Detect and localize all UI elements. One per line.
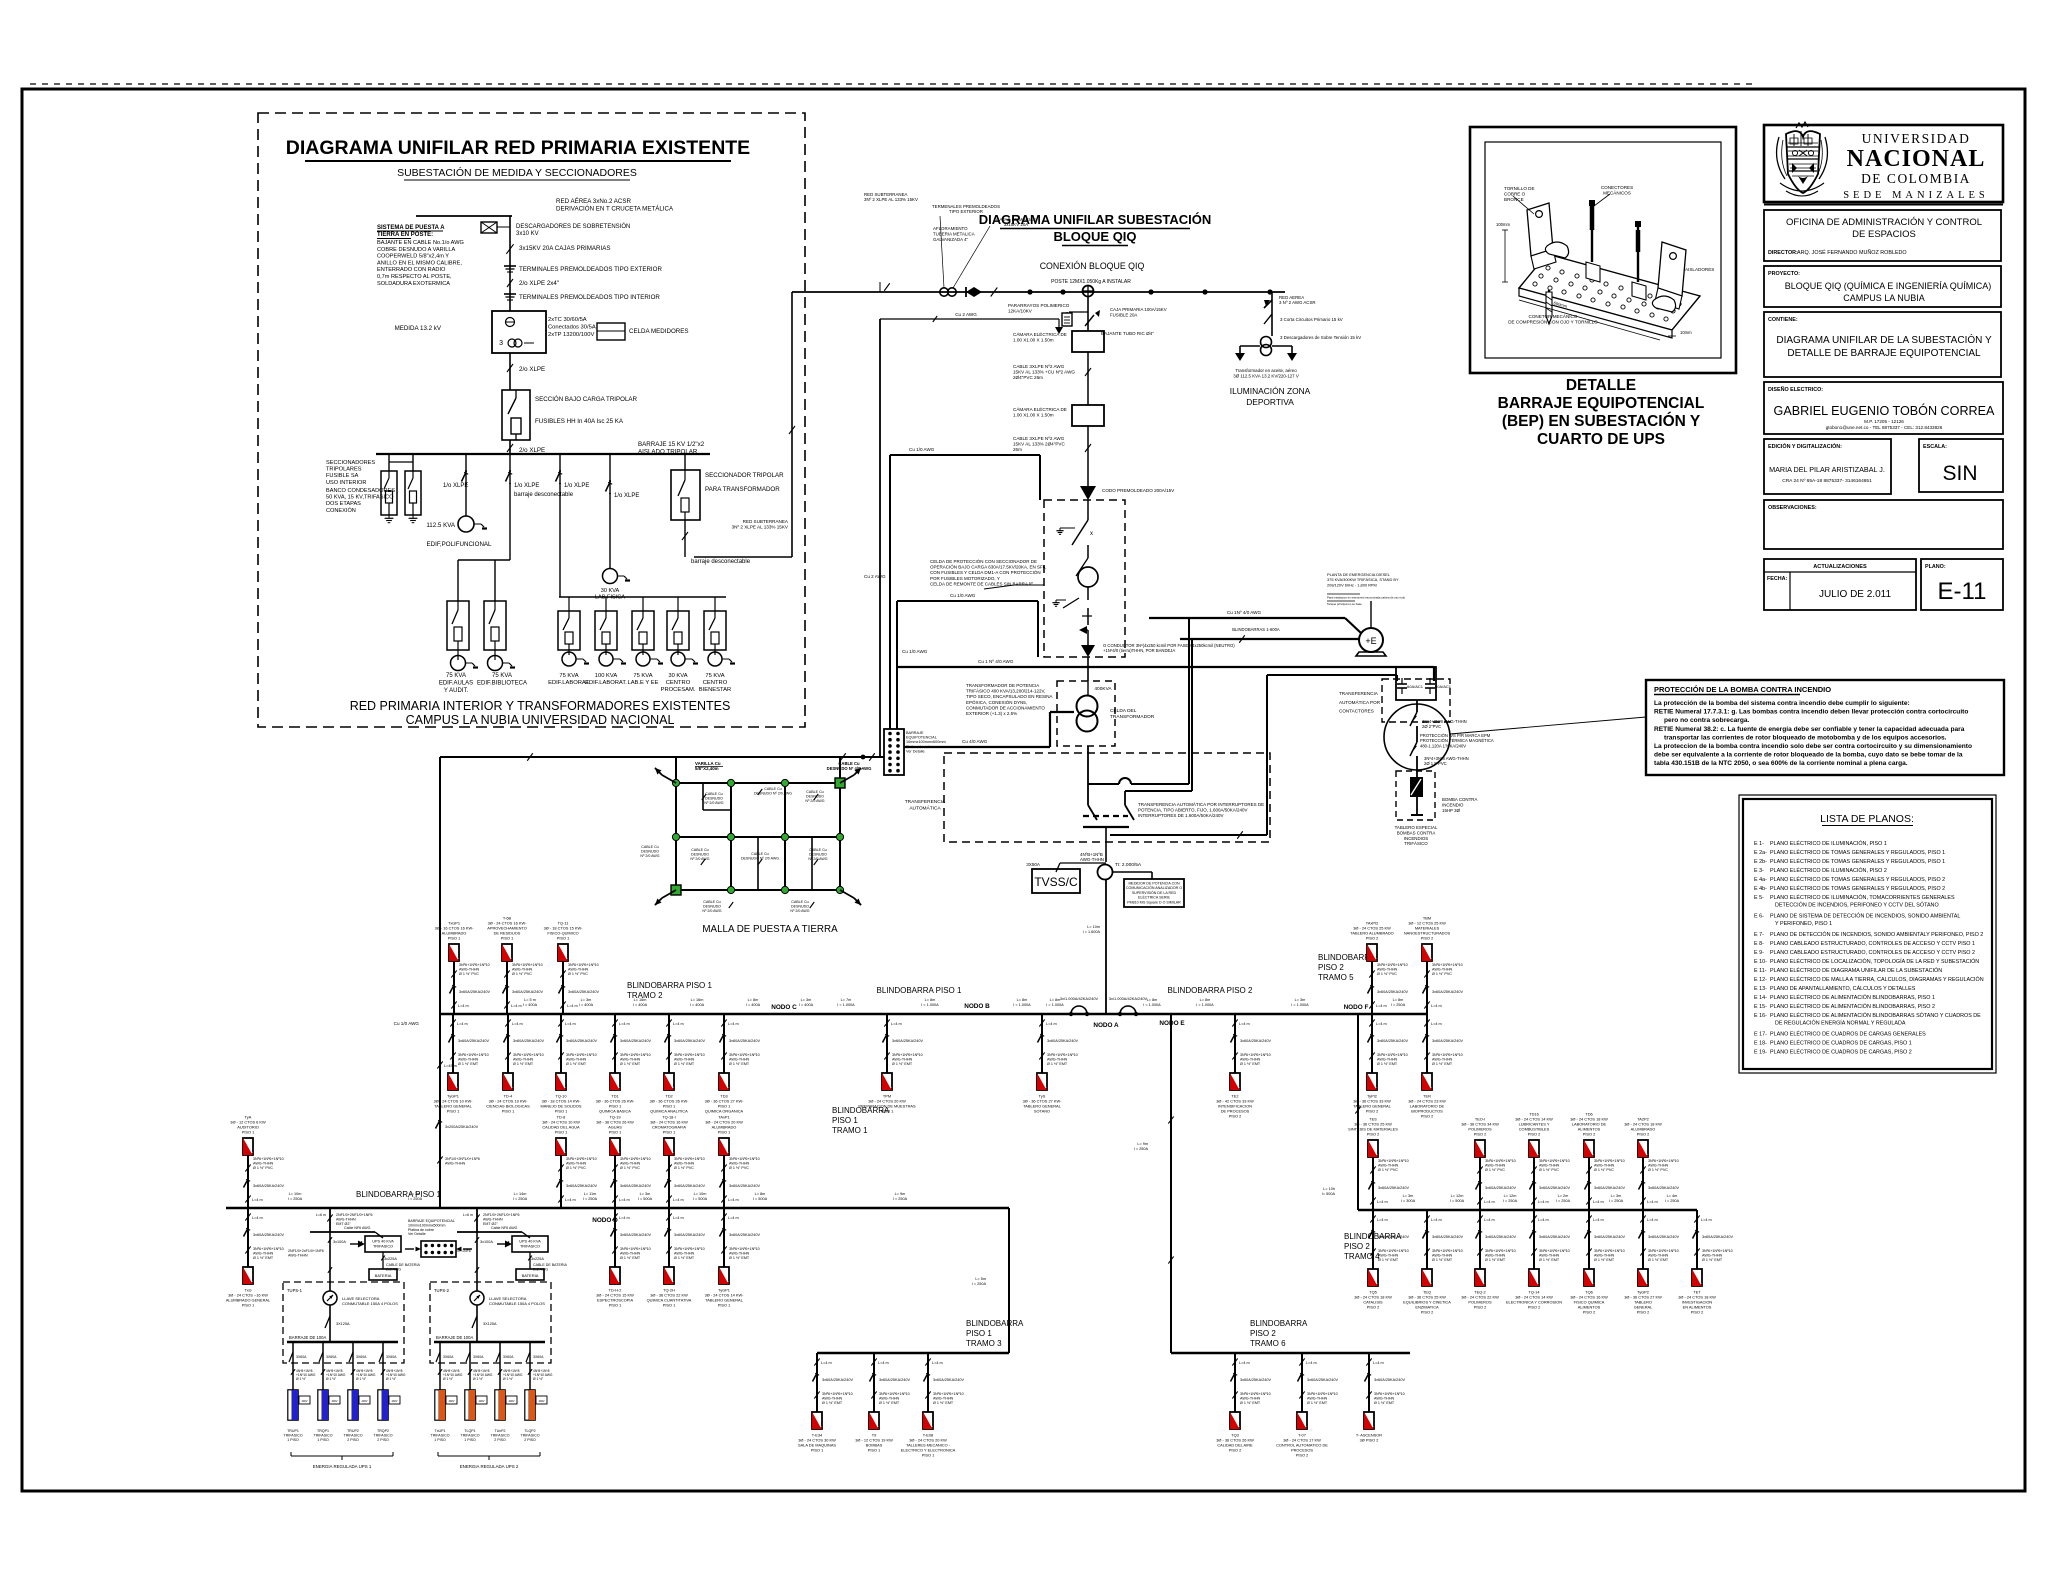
svg-text:JULIO DE 2.011: JULIO DE 2.011	[1819, 589, 1892, 600]
svg-text:RED AÉREA 3xNo.2 ACSR: RED AÉREA 3xNo.2 ACSR	[556, 198, 631, 205]
svg-text:BARRAJE EQUIPOTENCIAL: BARRAJE EQUIPOTENCIAL	[1498, 395, 1705, 412]
feeder TQ-18-I	[650, 1115, 705, 1209]
svg-text:BARRAJE 15 KV 1/2"x2: BARRAJE 15 KV 1/2"x2	[638, 441, 705, 448]
svg-text:transportar las corrientes: transportar las corrientes de rotor bloq…	[1664, 734, 1947, 741]
svg-text:L=4 m: L=4 m	[1239, 1022, 1250, 1026]
svg-text:Cu 1 Nº 4/0 AWG: Cu 1 Nº 4/0 AWG	[978, 659, 1014, 664]
svg-text:3X60A: 3X60A	[533, 1355, 544, 1359]
svg-text:3Nº6+1Nº6+1Nº10: 3Nº6+1Nº6+1Nº10	[620, 1053, 651, 1057]
svg-text:L=4 m: L=4 m	[1046, 1022, 1057, 1026]
svg-text:3x60A/25KA/240V: 3x60A/25KA/240V	[566, 1039, 597, 1043]
svg-text:SIN: SIN	[1942, 462, 1977, 485]
svg-text:CABLE Cu: CABLE Cu	[806, 790, 823, 794]
svg-text:2NF1/0+2NF1/0+1NF6: 2NF1/0+2NF1/0+1NF6	[336, 1213, 373, 1217]
svg-text:3Nº6+1Nº6+1Nº10: 3Nº6+1Nº6+1Nº10	[620, 1247, 651, 1251]
svg-text:CABLE 3XLPE Nº2 AWG: CABLE 3XLPE Nº2 AWG	[1013, 364, 1065, 369]
svg-text:L=6 m: L=6 m	[463, 1213, 473, 1217]
svg-text:AWG-THHN: AWG-THHN	[892, 1058, 912, 1062]
svg-text:L= 3m: L= 3m	[1403, 1194, 1414, 1198]
svg-text:SISTEMA DE PUESTA A: SISTEMA DE PUESTA A	[377, 225, 445, 231]
svg-text:Y AUDIT.: Y AUDIT.	[444, 688, 469, 694]
svg-text:PISO 1: PISO 1	[663, 1303, 676, 1308]
svg-text:TRAMO 1: TRAMO 1	[832, 1126, 868, 1135]
svg-text:PISO 1: PISO 1	[922, 1453, 935, 1458]
svg-text:TRAMO 3: TRAMO 3	[966, 1339, 1002, 1348]
svg-text:CABLE Cu: CABLE Cu	[703, 900, 720, 904]
svg-text:Ø 1 ½" PVC: Ø 1 ½" PVC	[566, 1166, 586, 1170]
proyecto box	[1764, 266, 2001, 307]
svg-text:DIRECTOR:: DIRECTOR:	[1768, 250, 1798, 256]
svg-text:Ø 1 ½" EMT: Ø 1 ½" EMT	[729, 1062, 750, 1066]
caption detalle BEP	[1498, 377, 1705, 448]
svg-text:ESCALA:: ESCALA:	[1923, 444, 1947, 450]
svg-text:3 Corta Circuitos Primario 15: 3 Corta Circuitos Primario 15 kV	[1280, 317, 1343, 322]
bus tie arcs at nodo A	[1060, 996, 1148, 1016]
svg-text:TRIFASICO: TRIFASICO	[521, 1434, 540, 1438]
svg-text:TRUP2: TRUP2	[347, 1429, 359, 1433]
svg-text:Ø 1 ½" PVC: Ø 1 ½" PVC	[1485, 1168, 1505, 1172]
svg-text:CONEXIÓN: CONEXIÓN	[326, 507, 356, 514]
svg-text:3Nº6+1Nº6+1Nº10: 3Nº6+1Nº6+1Nº10	[674, 1157, 705, 1161]
svg-text:INCENDIOS: INCENDIOS	[1404, 836, 1428, 841]
svg-text:COOPERWELD 5/8"x2,4m Y: COOPERWELD 5/8"x2,4m Y	[377, 254, 449, 260]
svg-text:3Nº6+1Nº6+1Nº10: 3Nº6+1Nº6+1Nº10	[513, 1053, 544, 1057]
wire gen output	[1180, 627, 1359, 643]
feeder TyS	[1023, 1014, 1079, 1114]
UPS dashed enclosure TUPS-1	[283, 1282, 404, 1363]
svg-text:Ø 1 ½" EMT: Ø 1 ½" EMT	[1594, 1258, 1615, 1262]
svg-text:EPÓXICA, CONEXIÓN DYN5,: EPÓXICA, CONEXIÓN DYN5,	[966, 699, 1027, 705]
svg-text:RED PRIMARIA INTERIOR Y TRANSF: RED PRIMARIA INTERIOR Y TRANSFORMADORES …	[350, 699, 731, 713]
svg-text:3 Nº 2 AWG ACSR: 3 Nº 2 AWG ACSR	[1279, 300, 1316, 305]
node labels	[592, 1003, 1368, 1224]
escala box	[1919, 439, 2003, 492]
svg-text:3x60A/25KA/240V: 3x60A/25KA/240V	[1378, 1235, 1409, 1239]
svg-text:barraje desconectable: barraje desconectable	[514, 492, 574, 498]
power meter box	[1124, 879, 1184, 907]
svg-text:3X60A: 3X60A	[326, 1355, 337, 1359]
transfer breakers	[1083, 746, 1134, 862]
note planta de emergencia diesel	[1327, 572, 1405, 606]
svg-text:SECCIÓN BAJO CARGA TRIPOLAR: SECCIÓN BAJO CARGA TRIPOLAR	[535, 396, 638, 403]
svg-text:DERIVACIÓN EN T CRUCETA METÁ: DERIVACIÓN EN T CRUCETA METÁLICA	[556, 206, 674, 213]
svg-text:Ø 1 ½": Ø 1 ½"	[443, 1377, 454, 1381]
svg-text:FECHA:: FECHA:	[1767, 576, 1788, 582]
svg-text:I = 400A: I = 400A	[579, 1003, 594, 1007]
svg-text:I = 1.000A: I = 1.000A	[1013, 1003, 1031, 1007]
svg-text:CONETOR MECÁNICO: CONETOR MECÁNICO	[1529, 313, 1578, 319]
svg-text:Nº 2/0 AWG: Nº 2/0 AWG	[808, 857, 827, 861]
svg-text:ENERGIA REGULADA UPS 1: ENERGIA REGULADA UPS 1	[313, 1464, 372, 1469]
svg-text:I = 250A: I = 250A	[1665, 1199, 1680, 1203]
svg-text:L=4 m: L=4 m	[1647, 1200, 1658, 1204]
svg-text:Nº 2/0 AWG: Nº 2/0 AWG	[702, 909, 721, 913]
svg-text:UPS 40 KVA: UPS 40 KVA	[519, 1240, 541, 1244]
svg-text:L= 2m: L= 2m	[1558, 1194, 1569, 1198]
transformer cell dashed	[1057, 681, 1115, 746]
svg-text:Nº 2/0 AWG: Nº 2/0 AWG	[790, 909, 809, 913]
blindobarra piso 2 tramo 4 bus	[1358, 1209, 1697, 1211]
svg-text:3Nº6+1Nº6+1Nº10: 3Nº6+1Nº6+1Nº10	[822, 1392, 853, 1396]
svg-text:L= 8m: L= 8m	[1050, 998, 1061, 1002]
svg-text:PISO 2: PISO 2	[1421, 1114, 1434, 1119]
current transformer TI 2000/5A	[1098, 862, 1153, 880]
svg-text:1/o XLPE: 1/o XLPE	[614, 493, 639, 499]
isometric copper bar	[1519, 200, 1700, 338]
svg-text:3Nº6+1Nº6+1Nº10: 3Nº6+1Nº6+1Nº10	[879, 1392, 910, 1396]
svg-text:I = 1.000A: I = 1.000A	[1143, 1003, 1161, 1007]
UPS subsystem TUPS-1	[288, 1208, 420, 1342]
feeder TD-8	[542, 1115, 597, 1209]
svg-text:BATERIA: BATERIA	[375, 1273, 392, 1278]
svg-text:12KA/10KV: 12KA/10KV	[1008, 309, 1033, 314]
svg-text:3x10 KV: 3x10 KV	[516, 231, 539, 237]
svg-text:PISO 1: PISO 1	[718, 1303, 731, 1308]
svg-text:3Ø 112.5 KVA 13.2 KV/220-127 V: 3Ø 112.5 KVA 13.2 KV/220-127 V	[1233, 374, 1299, 379]
svg-text:AWG-THHN: AWG-THHN	[729, 1058, 749, 1062]
svg-text:POR FUSIBLES MOTORIZADO, Y: POR FUSIBLES MOTORIZADO, Y	[930, 576, 1000, 581]
svg-text:75 KVA: 75 KVA	[633, 673, 652, 679]
svg-text:3Nº6+1Nº6+1Nº10: 3Nº6+1Nº6+1Nº10	[1378, 1159, 1409, 1163]
svg-text:CABLE DE BATERIA: CABLE DE BATERIA	[386, 1263, 420, 1267]
svg-text:PISO 2: PISO 2	[1344, 1242, 1370, 1251]
svg-text:3x225A: 3x225A	[384, 1257, 397, 1261]
fire pump protection circle	[1384, 700, 1450, 777]
svg-text:CABLE Cu: CABLE Cu	[764, 787, 781, 791]
svg-text:3x100A: 3x100A	[480, 1240, 493, 1244]
svg-text:3x60A/25KA/240V: 3x60A/25KA/240V	[1485, 1186, 1516, 1190]
svg-text:DETECCIÓN DE INCENDIOS, PERIFO: DETECCIÓN DE INCENDIOS, PERIFONEO Y CCTV…	[1775, 901, 1939, 908]
svg-text:100mm: 100mm	[1496, 222, 1510, 227]
svg-text:L= 3m: L= 3m	[1611, 1194, 1622, 1198]
svg-text:PLANO CABLEADO ESTRUCTURADO, C: PLANO CABLEADO ESTRUCTURADO, CONTROLES D…	[1770, 941, 1975, 947]
svg-text:400V: 400V	[301, 1399, 307, 1403]
svg-text:10mmx100mmx600mm: 10mmx100mmx600mm	[906, 740, 946, 744]
svg-text:I = 500A: I = 500A	[1450, 1199, 1465, 1203]
svg-text:L=4 m: L=4 m	[728, 1022, 739, 1026]
svg-text:CABLE Cu: CABLE Cu	[809, 848, 826, 852]
svg-text:3x225A: 3x225A	[531, 1257, 544, 1261]
feeder T-6B	[487, 916, 543, 1015]
svg-text:3Nº6+1Nº6+1Nº10: 3Nº6+1Nº6+1Nº10	[1485, 1249, 1516, 1253]
svg-text:3Nº6+1Nº6+1Nº10: 3Nº6+1Nº6+1Nº10	[1648, 1249, 1679, 1253]
svg-text:CABLE Cu: CABLE Cu	[691, 848, 708, 852]
svg-text:PISO 1: PISO 1	[663, 1130, 676, 1135]
svg-text:75 KVA: 75 KVA	[492, 673, 512, 679]
UPS dashed enclosure TUPS-2	[430, 1282, 551, 1363]
svg-text:L=4 m: L=4 m	[728, 1198, 739, 1202]
svg-text:L=4 m: L=4 m	[1376, 1004, 1387, 1008]
svg-text:UPS 40 KVA: UPS 40 KVA	[372, 1240, 394, 1244]
UPS feeder TUxP2	[491, 1342, 523, 1442]
svg-text:TLQP1: TLQP1	[464, 1429, 475, 1433]
svg-text:FUSIBLE 20A: FUSIBLE 20A	[1110, 312, 1137, 317]
svg-text:Ø 1 ½" PVC: Ø 1 ½" PVC	[1378, 1168, 1398, 1172]
svg-text:CENTRO: CENTRO	[666, 680, 691, 686]
svg-text:L= 8m: L= 8m	[755, 1192, 766, 1196]
svg-text:COBRE O: COBRE O	[1504, 192, 1526, 197]
svg-text:Ø 1 ½" PVC: Ø 1 ½" PVC	[674, 1166, 694, 1170]
svg-text:CABLE Cu: CABLE Cu	[641, 845, 658, 849]
svg-text:RED SUBTERRANEA: RED SUBTERRANEA	[743, 519, 789, 524]
svg-text:L=4 m: L=4 m	[1376, 1022, 1387, 1026]
svg-text:AWG-THHN: AWG-THHN	[1594, 1164, 1614, 1168]
svg-text:I = 250A: I = 250A	[408, 1197, 423, 1201]
svg-text:3Nº6+1Nº6+1Nº10: 3Nº6+1Nº6+1Nº10	[512, 963, 543, 967]
svg-text:3x60A/25KA/240V: 3x60A/25KA/240V	[253, 1233, 284, 1237]
svg-text:3x60A/25KA/240V: 3x60A/25KA/240V	[822, 1378, 853, 1382]
svg-text:AWG-THHN: AWG-THHN	[1432, 1058, 1452, 1062]
svg-text:3Nº6+1Nº6+1Nº10: 3Nº6+1Nº6+1Nº10	[1594, 1159, 1625, 1163]
svg-text:75 KVA: 75 KVA	[559, 673, 578, 679]
feeder TD-H-2	[596, 1208, 651, 1308]
svg-text:3x60A/25KA/240V: 3x60A/25KA/240V	[1594, 1235, 1625, 1239]
svg-text:Platina de cobre: Platina de cobre	[408, 1228, 434, 1232]
svg-text:PISO 1: PISO 1	[501, 936, 514, 941]
actualizaciones box	[1764, 559, 1916, 610]
svg-text:PISO 2: PISO 2	[1296, 1453, 1309, 1458]
feeder TxG	[226, 1208, 285, 1308]
svg-text:3x15KV 20A: 3x15KV 20A	[1004, 222, 1028, 227]
svg-text:L=4 m: L=4 m	[567, 1004, 578, 1008]
svg-text:OFICINA DE ADMINISTRACIÓN Y CO: OFICINA DE ADMINISTRACIÓN Y CONTROL	[1786, 217, 1982, 228]
svg-text:DESNUDO: DESNUDO	[691, 852, 709, 856]
svg-text:AWG-THHN: AWG-THHN	[1539, 1164, 1559, 1168]
svg-text:AWG-THHN: AWG-THHN	[674, 1252, 694, 1256]
svg-text:3Nº6+1Nº6+1Nº10: 3Nº6+1Nº6+1Nº10	[1240, 1053, 1271, 1057]
svg-text:Nº 2/0 AWG: Nº 2/0 AWG	[704, 801, 723, 805]
svg-text:Ø 1 ½" PVC: Ø 1 ½" PVC	[1539, 1168, 1559, 1172]
note celda proteccion	[930, 558, 1047, 589]
svg-text:PISO 1: PISO 1	[966, 1329, 992, 1338]
svg-text:Cu 2 AWG: Cu 2 AWG	[864, 574, 886, 579]
svg-text:L=4 m: L=4 m	[1431, 1022, 1442, 1026]
svg-text:I = 250A: I = 250A	[893, 1197, 908, 1201]
svg-text:AWG-THHN: AWG-THHN	[336, 1217, 356, 1221]
svg-text:DESNUDO: DESNUDO	[703, 904, 721, 908]
seccionador tripolar para transformador	[671, 454, 784, 565]
svg-text:AWG-THHN: AWG-THHN	[458, 1058, 478, 1062]
svg-text:LAB.E Y EE: LAB.E Y EE	[627, 680, 658, 686]
svg-text:3x60A/25KA/240V: 3x60A/25KA/240V	[1539, 1186, 1570, 1190]
svg-text:2NF1/0+2xF1/0+1NF6: 2NF1/0+2xF1/0+1NF6	[288, 1249, 324, 1253]
svg-text:400V: 400V	[361, 1399, 367, 1403]
svg-text:1 PISO: 1 PISO	[464, 1438, 476, 1442]
svg-text:L=4 m: L=4 m	[511, 1004, 522, 1008]
svg-text:AWG-THHN: AWG-THHN	[729, 1162, 749, 1166]
svg-text:I = 500A: I = 500A	[638, 1197, 653, 1201]
svg-text:Ver Detalle: Ver Detalle	[408, 1232, 426, 1236]
svg-text:L=4 m: L=4 m	[1701, 1218, 1712, 1222]
feeder T-07	[1276, 1353, 1338, 1458]
svg-text:L=4 m: L=4 m	[821, 1361, 832, 1365]
svg-text:E 6-: E 6-	[1754, 914, 1764, 920]
svg-text:3Nº6+1Nº6+1Nº10: 3Nº6+1Nº6+1Nº10	[892, 1053, 923, 1057]
UPS feeder TRQP1	[314, 1342, 346, 1442]
svg-text:L=4 m: L=4 m	[252, 1198, 263, 1202]
svg-text:TVSS/C: TVSS/C	[1034, 875, 1078, 889]
svg-text:3Nº6+1Nº6+1Nº10: 3Nº6+1Nº6+1Nº10	[566, 1157, 597, 1161]
wire: red aerea bus	[416, 215, 512, 217]
svg-text:Tanque principal en su base: Tanque principal en su base	[1327, 602, 1362, 606]
svg-text:3x60A/25KA/240V: 3x60A/25KA/240V	[253, 1184, 284, 1188]
svg-text:75 KVA: 75 KVA	[446, 673, 466, 679]
svg-text:DOS ETAPAS: DOS ETAPAS	[326, 501, 361, 507]
svg-text:Ø 1 ½" EMT: Ø 1 ½" EMT	[513, 1062, 534, 1066]
svg-text:3x60A/25KA/240V: 3x60A/25KA/240V	[1047, 1039, 1078, 1043]
svg-text:E 5-: E 5-	[1754, 895, 1764, 901]
svg-text:Ver Detalle: Ver Detalle	[906, 749, 925, 753]
svg-text:EXTERIOR (+1.3) x 2.5%: EXTERIOR (+1.3) x 2.5%	[966, 711, 1017, 716]
lista de planos items	[1754, 840, 1984, 1056]
svg-text:AWG-THHN: AWG-THHN	[483, 1217, 503, 1221]
svg-text:CABLE Cu: CABLE Cu	[791, 900, 808, 904]
svg-text:L=4 m: L=4 m	[457, 1022, 468, 1026]
svg-text:LISTA DE PLANOS:: LISTA DE PLANOS:	[1820, 813, 1914, 825]
svg-text:Ø 1 ½" PVC: Ø 1 ½" PVC	[729, 1166, 749, 1170]
svg-text:MALLA DE PUESTA A TIERRA: MALLA DE PUESTA A TIERRA	[702, 924, 838, 935]
main feeder to busbar	[1083, 879, 1106, 1014]
labels pump protection	[1420, 717, 1646, 766]
svg-text:pero no contra sobrecarga.: pero no contra sobrecarga.	[1664, 717, 1750, 724]
detail box barraje equipotencial	[1470, 127, 1736, 373]
svg-text:PISO 1: PISO 1	[832, 1116, 858, 1125]
svg-text:E 15-: E 15-	[1754, 1004, 1767, 1010]
svg-text:CONEXIÓN BLOQUE QIQ: CONEXIÓN BLOQUE QIQ	[1040, 261, 1145, 271]
svg-text:Para instalacion en exteriores: Para instalacion en exteriores insonoriz…	[1327, 596, 1405, 600]
caption red primaria interior	[350, 699, 731, 727]
svg-text:2/o XLPE 2x4": 2/o XLPE 2x4"	[519, 280, 559, 287]
svg-text:PISO 2: PISO 2	[1528, 1305, 1541, 1310]
pararrayos polimerico	[1008, 303, 1072, 334]
svg-text:I = 250A: I = 250A	[1134, 1147, 1149, 1151]
svg-text:Cu 1/0 AWG: Cu 1/0 AWG	[394, 1021, 420, 1026]
svg-text:Ø 1 ½" EMT: Ø 1 ½" EMT	[729, 1256, 750, 1260]
svg-text:SECCIONADOR TRIPOLAR: SECCIONADOR TRIPOLAR	[705, 472, 784, 479]
svg-text:PISO 2: PISO 2	[1637, 1310, 1650, 1315]
pole symbol conexion	[1082, 285, 1094, 297]
svg-text:TxUP1: TxUP1	[435, 1429, 446, 1433]
svg-text:GALVANIZADA 4": GALVANIZADA 4"	[933, 237, 969, 242]
svg-text:E 8-: E 8-	[1754, 941, 1764, 947]
svg-text:AWG-THHN: AWG-THHN	[933, 1397, 953, 1401]
svg-text:AWG-THHN: AWG-THHN	[253, 1162, 273, 1166]
tramo4 segment labels	[1401, 1194, 1680, 1203]
svg-text:MEDIDA 13.2 kV: MEDIDA 13.2 kV	[395, 325, 442, 332]
svg-text:L=4 m: L=4 m	[252, 1216, 263, 1220]
svg-text:3x60A/25KA/240V: 3x60A/25KA/240V	[892, 1039, 923, 1043]
svg-text:Ø 1 ½" EMT: Ø 1 ½" EMT	[892, 1062, 913, 1066]
svg-text:TORNILLO DE: TORNILLO DE	[1504, 186, 1535, 191]
wire Cu 4/0 AWG to transformer	[904, 712, 1074, 747]
svg-text:PLANO ELÉCTRICO DE ALIMENTACIÓ: PLANO ELÉCTRICO DE ALIMENTACIÓN BLINDOBA…	[1770, 1012, 1981, 1019]
svg-text:3Nº6+1Nº6+1Nº10: 3Nº6+1Nº6+1Nº10	[1539, 1249, 1570, 1253]
svg-text:Ø 1 ½" EMT: Ø 1 ½" EMT	[822, 1401, 843, 1405]
feeder TQ-2H	[647, 1208, 706, 1308]
svg-text:3x60A/25KA/240V: 3x60A/25KA/240V	[674, 1233, 705, 1237]
svg-text:BARRAJE: BARRAJE	[906, 731, 924, 735]
svg-text:PISO 1: PISO 1	[868, 1448, 881, 1453]
svg-text:M.P. 17205 - 12126: M.P. 17205 - 12126	[1864, 419, 1904, 424]
svg-text:AWG-THHN: AWG-THHN	[1378, 1164, 1398, 1168]
UPS barraje 100A TUPS-1	[287, 1335, 398, 1342]
svg-text:AWG-THHN: AWG-THHN	[1374, 1397, 1394, 1401]
svg-text:I = 250A: I = 250A	[1503, 1199, 1518, 1203]
svg-text:Cu 1/0 AWG: Cu 1/0 AWG	[950, 593, 976, 598]
svg-text:3x60A/25KA/240V: 3x60A/25KA/240V	[1648, 1186, 1679, 1190]
svg-text:BATERIA: BATERIA	[522, 1273, 539, 1278]
svg-text:OBSERVACIONES:: OBSERVACIONES:	[1768, 505, 1817, 511]
svg-text:Transformador en aceite, aéreo: Transformador en aceite, aéreo	[1235, 368, 1297, 373]
svg-text:TIERRA EN POSTE:: TIERRA EN POSTE:	[377, 232, 433, 238]
svg-text:Ø 1 ½" EMT: Ø 1 ½" EMT	[253, 1256, 274, 1260]
edicion box	[1764, 439, 1891, 494]
svg-text:TI: 2.000/5A: TI: 2.000/5A	[1115, 862, 1142, 868]
svg-text:TRANSFERENCIA: TRANSFERENCIA	[1339, 691, 1379, 696]
svg-text:TIPO EXTERIOR: TIPO EXTERIOR	[949, 209, 983, 214]
svg-text:BLINDOBARRA PISO 2: BLINDOBARRA PISO 2	[1168, 986, 1253, 995]
svg-text:5/8"X2,40m: 5/8"X2,40m	[695, 766, 719, 771]
svg-text:PLANO DE APANTALLAMIENTO, CÁLC: PLANO DE APANTALLAMIENTO, CÁLCULOS Y DET…	[1770, 985, 1916, 992]
svg-text:3Nº6+1Nº6+1Nº10: 3Nº6+1Nº6+1Nº10	[1307, 1392, 1338, 1396]
svg-text:CONTACTORES: CONTACTORES	[1339, 709, 1374, 714]
svg-text:Ø 1 ½" EMT: Ø 1 ½" EMT	[458, 1062, 479, 1066]
svg-text:AWG-THHN: AWG-THHN	[1648, 1164, 1668, 1168]
svg-text:E 2b-: E 2b-	[1754, 859, 1767, 865]
oficina box	[1764, 210, 2001, 261]
svg-text:INTERRUPTORES DE 1.600A/50KA/2: INTERRUPTORES DE 1.600A/50KA/240V	[1138, 813, 1223, 818]
svg-text:ENTERRADO CON RADIO: ENTERRADO CON RADIO	[377, 267, 446, 273]
UPS feeder TRUP2	[344, 1342, 376, 1442]
svg-text:Cable NF6 AWG: Cable NF6 AWG	[491, 1226, 518, 1230]
surge arrester: descargadores	[481, 222, 630, 237]
svg-text:Ø 1 ½" EMT: Ø 1 ½" EMT	[1374, 1401, 1395, 1405]
svg-text:E 11-: E 11-	[1754, 968, 1767, 974]
title block logo box	[1764, 125, 2003, 205]
svg-text:L= 10h: L= 10h	[1323, 1187, 1335, 1191]
svg-text:E 14-: E 14-	[1754, 995, 1767, 1001]
svg-text:E 19-: E 19-	[1754, 1050, 1767, 1056]
svg-text:PLANO ELÉCTRICO DE ALIMENTACIÓ: PLANO ELÉCTRICO DE ALIMENTACIÓN BLINDOBA…	[1770, 994, 1935, 1001]
svg-text:2 PISO: 2 PISO	[377, 1438, 389, 1442]
svg-text:L= 14m: L= 14m	[514, 1192, 527, 1196]
svg-text:ANILLO EN EL MISMO CALIBRE,: ANILLO EN EL MISMO CALIBRE,	[377, 260, 462, 266]
svg-text:PARARRAYOS POLIMERICO: PARARRAYOS POLIMERICO	[1008, 303, 1070, 308]
feeder TxGP1	[435, 921, 491, 1015]
svg-text:BRONCE: BRONCE	[1504, 197, 1524, 202]
svg-text:TRIFASICO: TRIFASICO	[491, 1434, 510, 1438]
svg-text:208/120V 60Hz - 1,800 RPM: 208/120V 60Hz - 1,800 RPM	[1327, 582, 1377, 587]
svg-text:debe ser equivalente a la: debe ser equivalente a la corriente de r…	[1654, 752, 1963, 759]
svg-text:Ø 1 ½": Ø 1 ½"	[503, 1377, 514, 1381]
svg-text:3x200A/25KA/240V: 3x200A/25KA/240V	[445, 1125, 479, 1129]
svg-text:AWG-THHN: AWG-THHN	[566, 1162, 586, 1166]
svg-text:26m: 26m	[1013, 447, 1022, 452]
svg-text:L=6 m: L=6 m	[316, 1213, 326, 1217]
svg-text:TRQP1: TRQP1	[317, 1429, 329, 1433]
svg-text:TRIFASICO: TRIFASICO	[344, 1434, 363, 1438]
svg-text:TRQP2: TRQP2	[377, 1429, 389, 1433]
svg-text:3Nº6+1Nº6+1Nº10: 3Nº6+1Nº6+1Nº10	[933, 1392, 964, 1396]
svg-text:AUTOMÁTICA: AUTOMÁTICA	[909, 804, 941, 811]
svg-text:Ø 1 ½": Ø 1 ½"	[386, 1377, 397, 1381]
svg-text:400V: 400V	[538, 1399, 544, 1403]
svg-text:3x60A/25KA/240V: 3x60A/25KA/240V	[1307, 1378, 1338, 1382]
svg-text:3x60A/25KA/240V: 3x60A/25KA/240V	[1485, 1235, 1516, 1239]
svg-text:PLANO ELÉCTRICO DE TOMAS GENER: PLANO ELÉCTRICO DE TOMAS GENERALES Y REG…	[1770, 849, 1945, 856]
svg-text:L=4 m: L=4 m	[728, 1216, 739, 1220]
svg-text:L=4 m: L=4 m	[1538, 1200, 1549, 1204]
